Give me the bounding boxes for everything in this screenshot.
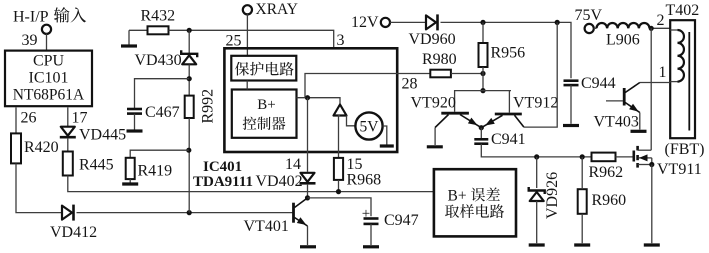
ground C467 bbox=[127, 114, 143, 131]
svg-text:B+: B+ bbox=[448, 188, 467, 205]
wire 12V to VD960 bbox=[390, 21, 425, 23]
svg-text:25: 25 bbox=[226, 33, 242, 50]
pin 1 label bbox=[659, 64, 667, 81]
5V reference circle bbox=[355, 112, 382, 139]
svg-text:XRAY: XRAY bbox=[256, 1, 299, 18]
pin 3 label bbox=[337, 32, 345, 49]
ground R419 bbox=[122, 179, 138, 184]
wire T402 pin 1 to VT403 collector bbox=[640, 82, 670, 84]
wire pin 28 branch bbox=[305, 74, 431, 98]
svg-text:5V: 5V bbox=[360, 119, 380, 136]
svg-text:H-I/P: H-I/P bbox=[13, 9, 49, 26]
inductor L906 bbox=[594, 23, 650, 48]
svg-text:17: 17 bbox=[72, 110, 88, 127]
pin 2 label bbox=[657, 12, 665, 29]
junction emitters / C941 bbox=[479, 125, 484, 130]
wire VT911 source to ground bbox=[651, 165, 653, 244]
capacitor C467 bbox=[127, 104, 180, 121]
junction R992 / R419 branch bbox=[186, 148, 191, 153]
svg-text:VT403: VT403 bbox=[594, 114, 639, 131]
svg-text:R420: R420 bbox=[24, 139, 59, 156]
svg-text:IC101: IC101 bbox=[29, 70, 69, 87]
ground 5V reference bbox=[380, 126, 394, 146]
diode VD445 bbox=[60, 127, 126, 144]
ground VT401 bbox=[300, 245, 316, 248]
svg-text:R432: R432 bbox=[141, 8, 176, 25]
resistor R980 bbox=[422, 51, 457, 77]
transistor VT403 bbox=[594, 83, 640, 131]
terminal XRAY bbox=[243, 1, 298, 18]
wire pin 14 to VD402 bbox=[307, 98, 309, 172]
svg-text:(FBT): (FBT) bbox=[665, 141, 705, 158]
svg-text:2: 2 bbox=[657, 12, 665, 29]
resistor R960 bbox=[578, 189, 626, 214]
node H-I/P input label bbox=[13, 7, 86, 25]
pin 26 label bbox=[21, 110, 37, 127]
wire B+ controller output bbox=[297, 98, 341, 105]
capacitor C944 bbox=[564, 75, 616, 92]
junction VD430 / C467 bbox=[187, 76, 192, 81]
transformer T402 FBT bbox=[666, 2, 700, 138]
wire VT920 collector to ground bbox=[434, 128, 436, 146]
svg-text:VT912: VT912 bbox=[513, 95, 558, 112]
svg-text:VD430: VD430 bbox=[135, 52, 182, 69]
resistor R956 bbox=[479, 43, 526, 67]
wire protection block to B+ controller bbox=[246, 81, 248, 90]
resistor R432 bbox=[129, 8, 175, 35]
junction 12V / R956 bbox=[480, 20, 485, 25]
resistor R445 bbox=[63, 152, 114, 176]
ground R960 bbox=[574, 157, 590, 245]
svg-text:39: 39 bbox=[22, 32, 38, 49]
wire C941 to sense line bbox=[481, 144, 591, 157]
junction sense / VD926 bbox=[534, 154, 539, 159]
capacitor C941 bbox=[474, 131, 525, 148]
wire R420 to VD412 line bbox=[16, 163, 62, 212]
op-amp U IC401 TDA9111 outline bbox=[224, 48, 397, 152]
wire R956 top bbox=[482, 22, 484, 43]
svg-text:NT68P61A: NT68P61A bbox=[13, 87, 85, 104]
svg-text:VD926: VD926 bbox=[544, 172, 561, 219]
CPU U=IC101 box bbox=[5, 51, 92, 107]
wire VT403 emitter to ground bbox=[639, 113, 641, 130]
diode VD430 zener bbox=[135, 30, 198, 69]
svg-text:VT401: VT401 bbox=[244, 218, 289, 235]
terminal H-I/P bbox=[42, 25, 51, 34]
diode VD960 bbox=[409, 14, 456, 47]
transistor VT920 bbox=[411, 95, 482, 128]
wire CPU pin 17 down to VD445 bbox=[67, 107, 69, 126]
pin 28 label bbox=[402, 76, 418, 93]
junction L906 / VT911 drain bbox=[649, 26, 654, 31]
wire triangle to 5V reference bbox=[347, 116, 356, 126]
svg-text:R960: R960 bbox=[592, 192, 627, 209]
wire R980 to R956 bottom bbox=[451, 73, 483, 75]
ground C944 bbox=[563, 85, 579, 125]
svg-text:C947: C947 bbox=[384, 212, 419, 229]
wire XRAY to pin 25 bbox=[246, 14, 248, 56]
svg-text:C941: C941 bbox=[491, 131, 526, 148]
terminal 12V bbox=[351, 14, 390, 31]
ground R432 bbox=[121, 30, 137, 46]
svg-text:TDA9111: TDA9111 bbox=[193, 174, 253, 190]
wire VD430 to R992 bbox=[188, 64, 190, 95]
svg-text:R419: R419 bbox=[138, 163, 173, 180]
TDA9111 label bbox=[193, 174, 253, 190]
svg-text:C944: C944 bbox=[581, 75, 616, 92]
wire VT912 collector to 12V bbox=[524, 22, 557, 127]
svg-text:26: 26 bbox=[21, 110, 37, 127]
junction VT401 collector / VD402 / C947 line bbox=[305, 195, 310, 200]
svg-text:IC401: IC401 bbox=[203, 159, 242, 175]
wire to resistor R419 bbox=[130, 150, 189, 158]
svg-text:VD960: VD960 bbox=[409, 31, 456, 48]
wire triangle to pin 15 bbox=[339, 116, 341, 158]
wire R445 to B+ sample line bbox=[68, 176, 434, 192]
FBT label bbox=[665, 141, 705, 158]
wire H-I/P terminal to CPU pin 39 bbox=[46, 34, 48, 51]
buffer amplifier triangle bbox=[334, 105, 347, 116]
junction R980 / R956 bbox=[480, 71, 485, 76]
resistor R419 bbox=[126, 158, 172, 180]
ground VT403 bbox=[631, 130, 647, 133]
diode VD402 bbox=[256, 173, 316, 190]
wire R956 to driver bases bbox=[482, 67, 484, 91]
svg-text:R445: R445 bbox=[79, 157, 114, 174]
wire VD412 to VT401 base bbox=[77, 212, 293, 214]
wire T402 pin2 node down to VT911 drain bbox=[650, 28, 652, 150]
wire VD445 to R445 bbox=[67, 138, 69, 152]
wire L906 to T402 pin 2 bbox=[650, 27, 671, 29]
svg-text:CPU: CPU bbox=[33, 53, 65, 70]
wire CPU pin 26 down to R420 bbox=[15, 107, 17, 133]
svg-text:R992: R992 bbox=[200, 89, 217, 124]
svg-text:VT920: VT920 bbox=[411, 95, 456, 112]
wire R962 to VT911 gate bbox=[616, 156, 633, 158]
junction 12V / VT912 collector bbox=[555, 20, 560, 25]
ground VT920 bbox=[427, 145, 443, 148]
resistor R992 bbox=[185, 89, 217, 124]
svg-text:C467: C467 bbox=[145, 104, 180, 121]
resistor R968 bbox=[334, 158, 381, 189]
svg-text:VD412: VD412 bbox=[50, 224, 97, 241]
junction driver bases bridge bbox=[480, 88, 485, 93]
svg-text:VT911: VT911 bbox=[657, 161, 702, 178]
ground VT911 bbox=[644, 243, 660, 246]
wire VT401 emitter to ground bbox=[307, 226, 309, 245]
capacitor C947 polarized bbox=[362, 206, 419, 229]
junction B+ controller output bbox=[305, 95, 310, 100]
svg-text:14: 14 bbox=[285, 156, 301, 173]
svg-text:1: 1 bbox=[659, 64, 667, 81]
svg-text:T402: T402 bbox=[666, 2, 700, 19]
svg-text:R980: R980 bbox=[422, 51, 457, 68]
transistor VT912 bbox=[481, 95, 558, 128]
pin 39 label bbox=[22, 32, 38, 49]
B+ error sampling circuit block 误差取样电路 bbox=[434, 169, 516, 236]
svg-text:75V: 75V bbox=[575, 7, 603, 24]
svg-text:R968: R968 bbox=[347, 172, 382, 189]
svg-text:15: 15 bbox=[347, 156, 363, 173]
junction VD430 line / VD412 line bbox=[187, 210, 192, 215]
junction VT911 source bbox=[649, 162, 654, 167]
wire to capacitor C467 bbox=[135, 79, 190, 109]
wire bases bridge bbox=[455, 91, 511, 113]
junction R432/VD430 bbox=[187, 28, 192, 33]
svg-text:VD445: VD445 bbox=[79, 127, 126, 144]
junction R968 / sample line bbox=[336, 189, 341, 194]
wire R968 to sample line bbox=[338, 180, 340, 192]
wire R992 down to VD412 line bbox=[188, 118, 190, 213]
pin 25 label bbox=[226, 33, 242, 50]
wire R432 to pin 3 bbox=[169, 30, 334, 48]
wire VD402 to VT401 collector bbox=[307, 184, 309, 198]
svg-text:R956: R956 bbox=[491, 45, 526, 62]
resistor R962 bbox=[589, 153, 624, 182]
svg-text:3: 3 bbox=[337, 32, 345, 49]
terminal 75V bbox=[575, 7, 603, 33]
pin 14 label bbox=[285, 156, 301, 173]
pin 15 label bbox=[347, 156, 363, 173]
ground C947 bbox=[363, 224, 379, 247]
svg-text:+: + bbox=[362, 206, 370, 222]
svg-text:L906: L906 bbox=[606, 31, 640, 48]
svg-text:B+: B+ bbox=[257, 97, 275, 113]
diode VD926 zener bbox=[529, 157, 561, 219]
transistor VT401 bbox=[244, 198, 308, 235]
wire emitters to C941 bbox=[480, 128, 482, 140]
pin 17 label bbox=[72, 110, 88, 127]
svg-text:12V: 12V bbox=[351, 14, 379, 31]
protection circuit block 保护电路 bbox=[231, 56, 296, 81]
svg-text:28: 28 bbox=[402, 76, 418, 93]
junction sense / R960 bbox=[580, 154, 585, 159]
wire collector junction to C947 bbox=[308, 198, 372, 216]
IC401 label bbox=[203, 159, 242, 175]
B+ controller block 控制器 bbox=[232, 90, 297, 138]
svg-text:VD402: VD402 bbox=[256, 173, 303, 190]
ground VD926 bbox=[529, 201, 545, 245]
diode VD412 bbox=[50, 205, 97, 242]
svg-text:R962: R962 bbox=[589, 164, 624, 181]
resistor R420 bbox=[11, 133, 59, 163]
transistor VT911 MOSFET bbox=[634, 146, 702, 178]
wire VD960 to C944 bbox=[441, 22, 572, 78]
